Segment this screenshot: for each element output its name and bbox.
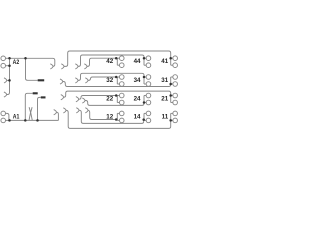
svg-text:32: 32	[106, 77, 113, 84]
svg-text:42: 42	[106, 58, 113, 65]
svg-text:A2: A2	[13, 59, 20, 66]
svg-text:11: 11	[162, 113, 169, 120]
svg-text:12: 12	[106, 113, 113, 120]
svg-text:44: 44	[134, 58, 141, 65]
svg-text:A1: A1	[13, 113, 20, 120]
svg-text:22: 22	[106, 96, 113, 103]
svg-text:24: 24	[134, 96, 141, 103]
svg-text:41: 41	[161, 58, 168, 65]
svg-text:14: 14	[134, 113, 141, 120]
svg-text:21: 21	[161, 96, 168, 103]
svg-text:34: 34	[134, 77, 141, 84]
svg-text:31: 31	[161, 77, 168, 84]
